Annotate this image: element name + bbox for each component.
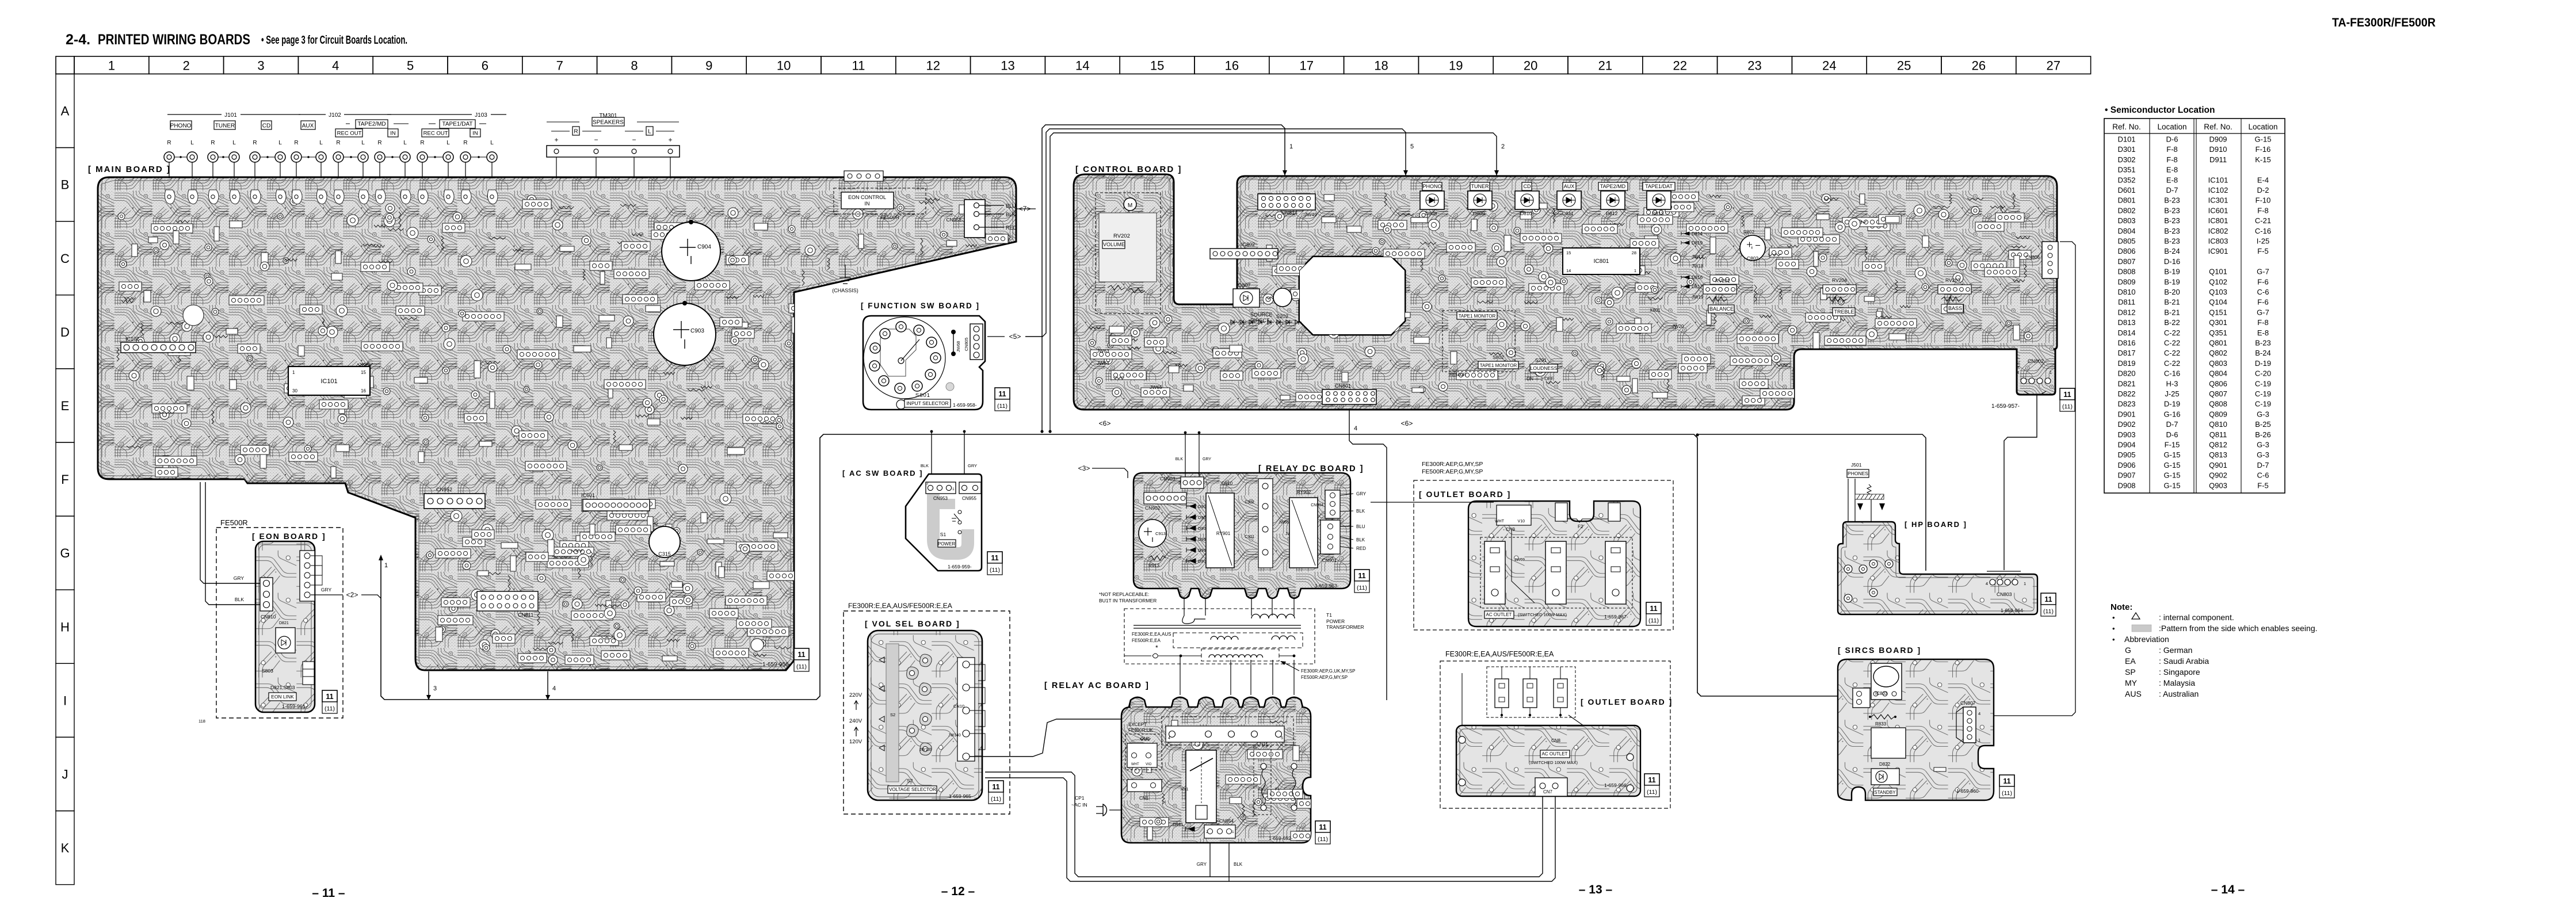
wires transformer to relay AC bbox=[1180, 656, 1181, 695]
svg-text:11: 11 bbox=[2044, 595, 2052, 603]
right step wires bbox=[970, 664, 985, 681]
svg-text:PRINTED WIRING BOARDS: PRINTED WIRING BOARDS bbox=[98, 32, 250, 48]
svg-text:G-15: G-15 bbox=[2164, 471, 2181, 480]
svg-text:•: • bbox=[2112, 635, 2115, 644]
svg-text:C315: C315 bbox=[658, 551, 671, 557]
svg-text:JW19: JW19 bbox=[1692, 295, 1704, 300]
svg-text:27: 27 bbox=[2046, 59, 2060, 73]
svg-text:IC802: IC802 bbox=[1241, 242, 1255, 247]
svg-text:C-6: C-6 bbox=[2257, 471, 2269, 480]
svg-text:TAPE1 MONITOR: TAPE1 MONITOR bbox=[1459, 314, 1496, 319]
svg-text:R: R bbox=[167, 140, 171, 146]
svg-text:CN952: CN952 bbox=[436, 487, 452, 492]
switch S1 bbox=[958, 510, 961, 514]
svg-text:D819: D819 bbox=[1692, 240, 1703, 246]
svg-text:D-2: D-2 bbox=[2257, 186, 2269, 194]
svg-text:IC101: IC101 bbox=[2208, 175, 2228, 184]
svg-text:JW68: JW68 bbox=[956, 341, 961, 352]
svg-text:L: L bbox=[648, 129, 651, 135]
svg-text:D101: D101 bbox=[2117, 135, 2135, 144]
svg-text:IC102: IC102 bbox=[125, 336, 139, 342]
svg-text:5: 5 bbox=[1410, 143, 1414, 150]
svg-text:C904: C904 bbox=[697, 244, 711, 250]
svg-text:D820: D820 bbox=[2117, 369, 2135, 378]
svg-text:E-8: E-8 bbox=[2166, 175, 2178, 184]
svg-text:G-7: G-7 bbox=[2257, 308, 2269, 316]
svg-text:D-16: D-16 bbox=[2164, 257, 2180, 266]
connector group J103 bbox=[387, 114, 472, 115]
svg-text:1-659-956-: 1-659-956- bbox=[762, 662, 791, 668]
svg-text:C-22: C-22 bbox=[2164, 359, 2180, 368]
svg-text:(CHASSIS): (CHASSIS) bbox=[832, 288, 858, 293]
leader to variant text bbox=[1282, 662, 1299, 671]
svg-text:[ RELAY DC BOARD ]: [ RELAY DC BOARD ] bbox=[1258, 464, 1364, 473]
svg-text:FE500R: FE500R bbox=[220, 518, 248, 527]
svg-text:D821: D821 bbox=[2117, 379, 2135, 388]
svg-text:RV203: RV203 bbox=[1945, 277, 1960, 283]
svg-text:: Malaysia: : Malaysia bbox=[2159, 678, 2195, 687]
svg-text:M: M bbox=[1128, 203, 1132, 209]
svg-text:CN805: CN805 bbox=[964, 338, 969, 351]
svg-text:CN8: CN8 bbox=[1551, 738, 1561, 743]
svg-text:CN802: CN802 bbox=[2028, 358, 2044, 364]
white hole circle bbox=[1273, 288, 1292, 307]
C802 bbox=[1740, 235, 1765, 261]
R833 resistor bbox=[1871, 715, 1894, 719]
connector entry left bbox=[1853, 688, 1870, 708]
wide traces bbox=[933, 494, 968, 553]
svg-text:•: • bbox=[2112, 613, 2115, 622]
svg-text:<7>: <7> bbox=[1019, 205, 1031, 213]
svg-text:(11): (11) bbox=[1647, 789, 1657, 796]
svg-text:5: 5 bbox=[1281, 736, 1283, 740]
wires from relay DC tabs bbox=[1184, 598, 1185, 616]
svg-text:C-16: C-16 bbox=[2255, 227, 2271, 235]
svg-text:IC803: IC803 bbox=[1875, 691, 1888, 696]
outlet 2 connection wires bbox=[1461, 673, 1463, 734]
wire node3 stub bbox=[428, 671, 429, 695]
svg-text:EXCEPT: EXCEPT bbox=[1128, 722, 1147, 727]
svg-text:J501: J501 bbox=[1851, 462, 1862, 468]
CN806 connector right edge bbox=[2042, 242, 2058, 278]
svg-text:Q103: Q103 bbox=[2209, 288, 2227, 296]
svg-text:CN803: CN803 bbox=[1997, 591, 2012, 597]
wires outlet CN7 down and left bbox=[985, 772, 1543, 877]
svg-text:Note:: Note: bbox=[2111, 602, 2132, 612]
svg-text:SOURCE: SOURCE bbox=[1250, 312, 1273, 318]
svg-text:S803: S803 bbox=[262, 668, 273, 674]
svg-text:L: L bbox=[319, 140, 323, 146]
center pad square bbox=[1871, 728, 1906, 758]
svg-text:AUX: AUX bbox=[302, 123, 314, 129]
svg-text:D810: D810 bbox=[2117, 288, 2135, 296]
svg-text:1: 1 bbox=[2050, 370, 2052, 375]
svg-text:– 12 –: – 12 – bbox=[941, 885, 975, 898]
selector contact blobs bbox=[920, 654, 932, 667]
svg-text:I: I bbox=[63, 693, 67, 708]
svg-text:C-16: C-16 bbox=[2164, 369, 2180, 378]
svg-text:(SWITCHED 100W MAX): (SWITCHED 100W MAX) bbox=[1529, 760, 1578, 765]
svg-text:L: L bbox=[490, 140, 494, 146]
svg-text:15: 15 bbox=[361, 370, 366, 375]
svg-text:GRY: GRY bbox=[968, 463, 977, 468]
svg-text:S2: S2 bbox=[907, 778, 913, 784]
svg-text:I-25: I-25 bbox=[2257, 237, 2269, 246]
svg-text:Q102: Q102 bbox=[2209, 277, 2227, 286]
svg-text:B-19: B-19 bbox=[2164, 268, 2180, 276]
svg-text:IC803: IC803 bbox=[2208, 237, 2228, 246]
svg-text:G-15: G-15 bbox=[2164, 481, 2181, 490]
svg-text:TAPE1/DAT: TAPE1/DAT bbox=[442, 121, 473, 128]
svg-text:D803: D803 bbox=[2117, 216, 2135, 225]
svg-text:[ AC SW BOARD ]: [ AC SW BOARD ] bbox=[842, 469, 923, 477]
CN814 connector bbox=[1258, 194, 1315, 210]
svg-text:2: 2 bbox=[1206, 830, 1208, 834]
svg-text:[ RELAY AC BOARD ]: [ RELAY AC BOARD ] bbox=[1044, 681, 1150, 690]
svg-text:FE300R:AEP,G,MY,SP: FE300R:AEP,G,MY,SP bbox=[1422, 461, 1483, 468]
S2 gray strip bbox=[886, 644, 899, 782]
svg-text:D908: D908 bbox=[2117, 481, 2135, 490]
svg-text:13: 13 bbox=[1001, 59, 1014, 73]
svg-text:11: 11 bbox=[326, 693, 333, 701]
svg-text:PHONO: PHONO bbox=[170, 123, 192, 129]
svg-text:POWER: POWER bbox=[1326, 618, 1345, 624]
svg-text:G-15: G-15 bbox=[2164, 461, 2181, 469]
svg-text:E-8: E-8 bbox=[2166, 166, 2178, 174]
svg-text:TRANSFORMER: TRANSFORMER bbox=[1326, 624, 1364, 630]
svg-text:1: 1 bbox=[1205, 482, 1208, 486]
svg-text:S802: S802 bbox=[1493, 354, 1504, 360]
svg-text:F-8: F-8 bbox=[2257, 318, 2269, 327]
wire net2 riser to control board bbox=[1050, 133, 1497, 430]
svg-text:24: 24 bbox=[1822, 59, 1836, 73]
svg-text:C-20: C-20 bbox=[2255, 369, 2271, 378]
svg-text:R802: R802 bbox=[1743, 230, 1755, 235]
left contact triangles bbox=[879, 657, 884, 663]
svg-text:E-4: E-4 bbox=[2257, 175, 2269, 184]
svg-text:11: 11 bbox=[1358, 572, 1365, 580]
transformer core lines bbox=[1134, 625, 1301, 628]
wire net5 function board to control board bbox=[987, 336, 1005, 337]
svg-text:BLU: BLU bbox=[1006, 203, 1016, 209]
svg-text:GRY: GRY bbox=[1356, 491, 1367, 496]
svg-text:B-23: B-23 bbox=[2164, 206, 2180, 215]
svg-text:D812: D812 bbox=[1606, 211, 1618, 216]
svg-text:(11): (11) bbox=[325, 705, 335, 712]
svg-text:1: 1 bbox=[1978, 738, 1980, 743]
diode column D904-D908 bbox=[1186, 504, 1196, 509]
CN810 connector bbox=[260, 578, 273, 611]
svg-text:[ HP BOARD ]: [ HP BOARD ] bbox=[1905, 520, 1967, 529]
IC101 bbox=[288, 366, 370, 395]
svg-text:Q807: Q807 bbox=[2209, 389, 2227, 398]
SIRCS board bbox=[1838, 659, 1994, 800]
svg-text:GRY: GRY bbox=[234, 575, 245, 581]
svg-text:FE300R:UK: FE300R:UK bbox=[1128, 728, 1153, 733]
svg-text:[ VOL SEL BOARD ]: [ VOL SEL BOARD ] bbox=[865, 619, 960, 628]
svg-text::Pattern from the side which e: :Pattern from the side which enables see… bbox=[2159, 624, 2318, 633]
svg-text:Ref. No.: Ref. No. bbox=[2112, 123, 2141, 131]
svg-text:(11): (11) bbox=[990, 567, 1000, 574]
svg-text:11: 11 bbox=[1319, 823, 1326, 831]
svg-text:23: 23 bbox=[1747, 59, 1761, 73]
svg-text:D804: D804 bbox=[2117, 227, 2135, 235]
CN952 connector bbox=[424, 494, 485, 509]
svg-text:D911: D911 bbox=[2209, 155, 2227, 164]
CN2 block bbox=[1125, 734, 1162, 770]
svg-text:J103: J103 bbox=[475, 112, 487, 119]
F1 fuse bbox=[1291, 763, 1297, 769]
svg-text:17: 17 bbox=[1299, 59, 1313, 73]
svg-text:S1: S1 bbox=[940, 532, 947, 537]
svg-text:F-6: F-6 bbox=[2257, 277, 2269, 286]
CN7 bbox=[1535, 778, 1567, 796]
wire net1 main loop bbox=[381, 434, 1854, 700]
svg-text:C-19: C-19 bbox=[2255, 389, 2271, 398]
svg-text:220V: 220V bbox=[849, 692, 863, 698]
svg-text:Q104: Q104 bbox=[2209, 298, 2227, 307]
svg-text:<3>: <3> bbox=[1078, 464, 1090, 472]
wires BLK GRY up from CN903 bbox=[1185, 433, 1186, 477]
svg-text:CD: CD bbox=[1524, 184, 1531, 189]
svg-text:TAPE2/MD: TAPE2/MD bbox=[1600, 184, 1626, 189]
svg-text:GRY: GRY bbox=[1197, 862, 1207, 867]
svg-text:1: 1 bbox=[1289, 143, 1293, 150]
svg-text:B-25: B-25 bbox=[2255, 420, 2270, 429]
svg-text:L: L bbox=[446, 140, 450, 146]
svg-text:CN904: CN904 bbox=[1311, 503, 1323, 507]
svg-text:(11): (11) bbox=[2043, 608, 2054, 615]
IC803 bbox=[1871, 663, 1902, 700]
mounting hole bottom right bbox=[751, 639, 764, 651]
svg-text:SPEAKERS: SPEAKERS bbox=[593, 120, 624, 126]
wires BLU BLK RED to node 7 bbox=[979, 205, 1004, 206]
svg-text:CN801: CN801 bbox=[1335, 383, 1351, 389]
svg-text:TUNER: TUNER bbox=[1471, 184, 1489, 189]
svg-text:1-659-692-: 1-659-692- bbox=[1269, 835, 1293, 841]
svg-text:11: 11 bbox=[797, 651, 805, 659]
svg-text:C902: C902 bbox=[1245, 501, 1254, 505]
svg-text:G-3: G-3 bbox=[2257, 450, 2269, 459]
svg-text:CN10: CN10 bbox=[953, 704, 964, 709]
svg-text:CN955: CN955 bbox=[962, 496, 976, 501]
svg-text:•: • bbox=[2112, 624, 2115, 633]
wire CN816 to HP right bbox=[1976, 242, 2075, 716]
winding box 1 bbox=[1173, 633, 1303, 648]
switch wiper bbox=[898, 358, 904, 364]
CN801 connector bbox=[1322, 389, 1376, 404]
relay RY901 bbox=[1206, 493, 1234, 568]
svg-text:FE500R:AEP,G,MY,SP: FE500R:AEP,G,MY,SP bbox=[1301, 675, 1348, 680]
svg-text:CN811: CN811 bbox=[518, 612, 533, 618]
connector group J101 bbox=[167, 114, 222, 115]
svg-text:E-8: E-8 bbox=[2257, 328, 2269, 337]
svg-text:D352: D352 bbox=[2117, 175, 2135, 184]
svg-text:(11): (11) bbox=[1648, 617, 1659, 624]
svg-text:Q804: Q804 bbox=[2209, 369, 2227, 378]
svg-text:J: J bbox=[62, 767, 68, 781]
svg-text:IC801: IC801 bbox=[2208, 216, 2228, 225]
svg-text:INPUT SELECTOR: INPUT SELECTOR bbox=[906, 400, 948, 406]
svg-text:*NOT REPLACEABLE:: *NOT REPLACEABLE: bbox=[1099, 591, 1149, 597]
svg-text:<6>: <6> bbox=[1401, 419, 1413, 427]
svg-text:B: B bbox=[61, 178, 70, 192]
svg-text:8: 8 bbox=[631, 59, 638, 73]
CN9 WHT V10 bbox=[1497, 505, 1531, 525]
capacitor C315 bbox=[649, 526, 680, 557]
svg-text:JW63: JW63 bbox=[1097, 348, 1109, 354]
svg-text:G-3: G-3 bbox=[2257, 410, 2269, 418]
RV202 volume dashed block bbox=[1096, 193, 1161, 314]
svg-text:−: − bbox=[632, 136, 636, 144]
svg-text:CN810: CN810 bbox=[261, 614, 276, 620]
svg-text:1: 1 bbox=[384, 562, 388, 569]
svg-text:D808: D808 bbox=[2117, 268, 2135, 276]
svg-text:1-659-961-: 1-659-961- bbox=[282, 704, 307, 709]
svg-text:JW139: JW139 bbox=[919, 748, 932, 752]
svg-text:• Semiconductor Location: • Semiconductor Location bbox=[2105, 105, 2215, 115]
svg-text:• See page 3 for Circuit Board: • See page 3 for Circuit Boards Location… bbox=[261, 34, 407, 47]
svg-text:D821,S803: D821,S803 bbox=[270, 685, 295, 690]
svg-text:WHT: WHT bbox=[1495, 519, 1505, 524]
svg-text:C-22: C-22 bbox=[2164, 328, 2180, 337]
winding box 2 bbox=[1201, 649, 1279, 661]
svg-text:9: 9 bbox=[705, 59, 712, 73]
svg-text:C-6: C-6 bbox=[2257, 288, 2269, 296]
svg-text:D816: D816 bbox=[1692, 275, 1703, 280]
svg-text:1-659-964-: 1-659-964- bbox=[2001, 608, 2025, 613]
svg-text:FE300R:AEP,G,UK,MY,SP: FE300R:AEP,G,UK,MY,SP bbox=[1301, 668, 1355, 674]
svg-text:JW17: JW17 bbox=[1692, 254, 1704, 259]
svg-text:D807: D807 bbox=[2117, 257, 2135, 266]
wires relay AC CN954 down bbox=[1209, 838, 1211, 877]
svg-text:L: L bbox=[278, 140, 282, 146]
svg-text:C: C bbox=[60, 251, 70, 266]
svg-text:<2>: <2> bbox=[346, 591, 358, 599]
svg-text:1-659-958-: 1-659-958- bbox=[953, 402, 977, 408]
svg-text:16: 16 bbox=[1225, 59, 1239, 73]
wire node4 stub bbox=[547, 671, 548, 695]
svg-text:D911: D911 bbox=[1173, 822, 1184, 827]
svg-text:S801: S801 bbox=[915, 392, 930, 399]
CN953 CN955 bbox=[926, 482, 956, 494]
CN803 connector bbox=[1987, 571, 2021, 572]
svg-text:11: 11 bbox=[2063, 391, 2071, 399]
svg-text:CN2: CN2 bbox=[1140, 736, 1150, 742]
svg-text:STANDBY: STANDBY bbox=[1874, 790, 1896, 795]
svg-text:RV204: RV204 bbox=[1832, 277, 1847, 283]
bottom right connector rows bbox=[303, 662, 314, 685]
svg-text:REC OUT: REC OUT bbox=[337, 130, 362, 136]
svg-text:D814: D814 bbox=[2117, 328, 2135, 337]
svg-text:D809: D809 bbox=[1473, 211, 1485, 216]
svg-text:D822: D822 bbox=[1879, 762, 1891, 767]
svg-text:15: 15 bbox=[1566, 250, 1571, 255]
svg-text:JW140: JW140 bbox=[948, 734, 961, 738]
svg-text:C901: C901 bbox=[1245, 535, 1254, 539]
svg-text:POWER: POWER bbox=[938, 541, 955, 547]
svg-text:(11): (11) bbox=[2002, 790, 2012, 797]
wire relay DC to outlet 1 bbox=[1371, 502, 1494, 503]
svg-text:<6>: <6> bbox=[1099, 419, 1111, 427]
EON CONTROL IN box bbox=[834, 188, 926, 214]
svg-text:R913: R913 bbox=[1148, 563, 1160, 568]
svg-text:B-23: B-23 bbox=[2164, 216, 2180, 225]
rotary switch circle bbox=[864, 317, 945, 399]
svg-text:F-5: F-5 bbox=[2257, 481, 2269, 490]
svg-text:R: R bbox=[420, 140, 424, 146]
svg-text:J102: J102 bbox=[329, 112, 341, 119]
svg-text:D-6: D-6 bbox=[2166, 135, 2178, 144]
svg-text:IC802: IC802 bbox=[2208, 227, 2228, 235]
svg-text:BU1T IN TRANSFORMER: BU1T IN TRANSFORMER bbox=[1099, 598, 1157, 603]
svg-text:D301: D301 bbox=[2117, 145, 2135, 154]
svg-text:4: 4 bbox=[1978, 711, 1980, 716]
svg-text:D302: D302 bbox=[2117, 155, 2135, 164]
CN805 connector function board bbox=[970, 324, 983, 360]
svg-text:VOLUME: VOLUME bbox=[1103, 242, 1125, 247]
svg-text:[ SIRCS BOARD ]: [ SIRCS BOARD ] bbox=[1838, 645, 1921, 655]
svg-text:CP1: CP1 bbox=[1075, 795, 1085, 801]
svg-text:C-22: C-22 bbox=[2164, 349, 2180, 357]
outlet board 2 bbox=[1456, 725, 1640, 796]
svg-text:CN814: CN814 bbox=[1281, 210, 1297, 216]
IC802 pad row bbox=[1210, 249, 1278, 259]
svg-text:IN: IN bbox=[865, 201, 870, 207]
svg-text:(SWITCHED 100W MAX): (SWITCHED 100W MAX) bbox=[1518, 612, 1567, 617]
svg-text:D-7: D-7 bbox=[2166, 420, 2178, 429]
svg-text:3: 3 bbox=[433, 685, 437, 692]
svg-text:D901: D901 bbox=[2117, 410, 2135, 418]
svg-text:2: 2 bbox=[183, 59, 190, 73]
svg-text:4: 4 bbox=[1168, 736, 1170, 740]
svg-text:TUNER: TUNER bbox=[215, 123, 235, 129]
svg-text:L: L bbox=[361, 140, 365, 146]
svg-text:JW64: JW64 bbox=[1097, 360, 1109, 366]
svg-text:D351: D351 bbox=[2117, 166, 2135, 174]
svg-text:[ CONTROL BOARD ]: [ CONTROL BOARD ] bbox=[1075, 165, 1182, 174]
svg-text:: internal component.: : internal component. bbox=[2159, 613, 2234, 622]
svg-text:2: 2 bbox=[1178, 482, 1181, 486]
svg-text:D902: D902 bbox=[2117, 420, 2135, 429]
svg-text:H-3: H-3 bbox=[2166, 379, 2178, 388]
svg-text:1-659-960-: 1-659-960- bbox=[1956, 788, 1980, 794]
svg-text:TREBLE: TREBLE bbox=[1834, 309, 1854, 315]
svg-text:D814: D814 bbox=[1692, 231, 1703, 236]
svg-text:D-7: D-7 bbox=[2166, 186, 2178, 194]
svg-text:D910: D910 bbox=[2209, 145, 2227, 154]
svg-text:1-659-959-: 1-659-959- bbox=[948, 564, 972, 570]
svg-text:1-659-957-: 1-659-957- bbox=[1991, 403, 2020, 410]
svg-text:D808: D808 bbox=[1425, 211, 1437, 216]
svg-text:: German: : German bbox=[2159, 645, 2192, 655]
svg-text:B-20: B-20 bbox=[2164, 288, 2180, 296]
svg-text:X801: X801 bbox=[1650, 308, 1661, 313]
svg-text:R: R bbox=[211, 140, 215, 146]
svg-text:S201: S201 bbox=[1535, 357, 1547, 363]
svg-text:+: + bbox=[668, 136, 672, 144]
CN10 pad column bbox=[957, 658, 975, 761]
svg-text:12: 12 bbox=[926, 59, 940, 73]
svg-text:D821: D821 bbox=[279, 621, 289, 625]
svg-text:V10: V10 bbox=[1518, 519, 1525, 524]
svg-text:2: 2 bbox=[926, 482, 929, 486]
svg-text:2-4.: 2-4. bbox=[66, 32, 90, 48]
svg-text:CN902: CN902 bbox=[1145, 505, 1161, 511]
svg-text:IC102: IC102 bbox=[2208, 186, 2228, 194]
svg-text:6: 6 bbox=[482, 59, 489, 73]
svg-text:B-23: B-23 bbox=[2255, 339, 2270, 347]
